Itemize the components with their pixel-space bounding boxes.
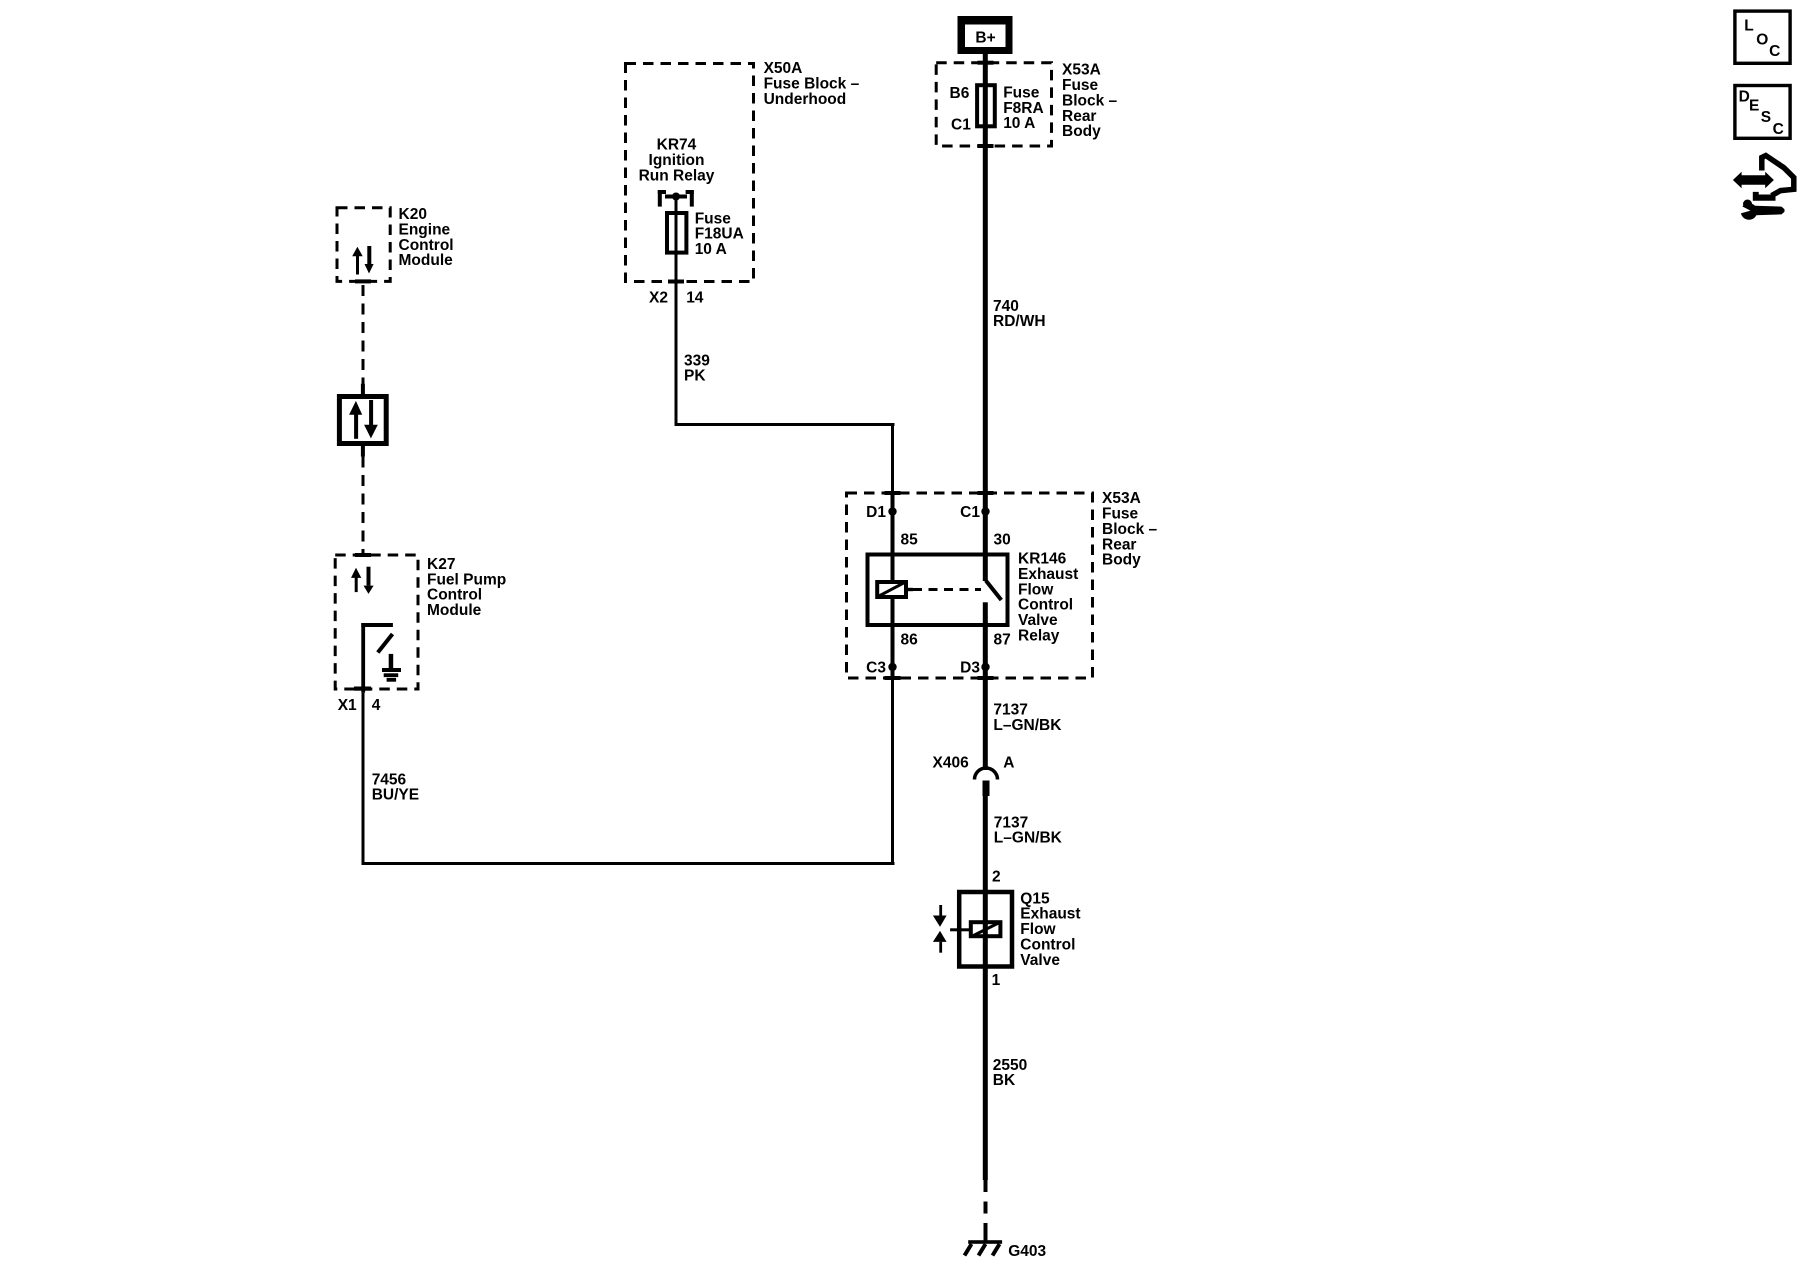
K27 internal driver switch bbox=[361, 623, 393, 653]
tick at wire crossing top edge of X53A upper box bbox=[978, 61, 994, 65]
svg-text:4: 4 bbox=[372, 697, 381, 714]
wire 7456 BU/YE rising segment to C3 bbox=[891, 679, 894, 865]
svg-text:C1: C1 bbox=[951, 117, 971, 134]
svg-text:Body: Body bbox=[1062, 123, 1101, 140]
diagnostic arrow and wrench icon bbox=[1733, 156, 1794, 220]
svg-text:14: 14 bbox=[686, 289, 704, 306]
KR74 Ignition Run Relay name label bbox=[639, 137, 715, 185]
wire 740 RD/WH bbox=[983, 128, 988, 581]
tick at C3 wire crossing bottom edge bbox=[885, 676, 901, 680]
fuse F8RA 10 A bbox=[977, 85, 995, 128]
tick at wire crossing bottom edge of X50A box bbox=[668, 280, 684, 284]
svg-text:C: C bbox=[1769, 43, 1780, 60]
svg-text:86: 86 bbox=[901, 631, 919, 648]
tick at D3 wire crossing bottom edge bbox=[978, 676, 994, 680]
svg-text:C: C bbox=[1773, 121, 1784, 138]
wire 339 PK value label bbox=[684, 352, 710, 384]
wire 7137 L-GN/BK upper value label bbox=[993, 702, 1062, 734]
svg-text:B+: B+ bbox=[975, 30, 995, 47]
K27 serial data arrows bbox=[351, 567, 374, 594]
node C3 junction dot bbox=[888, 663, 896, 671]
svg-text:Run Relay: Run Relay bbox=[639, 168, 715, 185]
svg-text:B6: B6 bbox=[950, 85, 970, 102]
svg-text:BK: BK bbox=[993, 1072, 1016, 1089]
K20 Engine Control Module dashed box bbox=[337, 208, 390, 282]
tick at wire crossing bottom edge of K20 box bbox=[355, 279, 371, 283]
wire from B+ into fuse block bbox=[983, 54, 988, 85]
X53A Fuse Block - Rear Body (upper) dashed box bbox=[936, 63, 1051, 146]
fuse F18UA value label bbox=[695, 210, 744, 258]
node D3 junction dot bbox=[981, 663, 989, 671]
wire D1 to relay coil pin 85 bbox=[891, 493, 895, 581]
svg-text:C3: C3 bbox=[866, 659, 886, 676]
svg-text:S: S bbox=[1761, 109, 1771, 126]
wire 740 RD/WH value label bbox=[993, 298, 1046, 330]
wire 7456 BU/YE value label bbox=[372, 771, 419, 803]
connector X1 pin 4 labels bbox=[338, 697, 381, 714]
svg-text:O: O bbox=[1756, 32, 1768, 49]
svg-text:BU/YE: BU/YE bbox=[372, 787, 419, 804]
Q15 Exhaust Flow Control Valve outline box bbox=[959, 892, 1012, 967]
relay KR146 name label bbox=[1018, 551, 1078, 645]
svg-text:D1: D1 bbox=[866, 504, 886, 521]
connector X406 symbol bbox=[975, 768, 998, 796]
X53A Fuse Block - Rear Body (relay) dashed box bbox=[847, 493, 1093, 678]
wire contact pin 87 to D3 bbox=[983, 602, 988, 770]
Q15 valve actuator arrows bbox=[933, 905, 947, 953]
svg-text:PK: PK bbox=[684, 368, 706, 385]
wire from switch to X1 pin 4 bbox=[361, 623, 365, 693]
relay KR146 switch blade bbox=[986, 581, 1002, 601]
gateway serial data arrows bbox=[349, 400, 378, 439]
relay KR146 outline box bbox=[868, 555, 1008, 626]
K27 internal ground bbox=[382, 654, 401, 682]
svg-text:87: 87 bbox=[994, 631, 1011, 648]
svg-text:E: E bbox=[1749, 98, 1759, 115]
dashed serial data wire gateway to K27 bbox=[362, 457, 365, 556]
Q15 Exhaust Flow Control Valve name label bbox=[1020, 890, 1080, 969]
serial data gateway box bbox=[339, 384, 386, 457]
svg-text:Valve: Valve bbox=[1020, 952, 1060, 969]
relay KR146 coil-contact dashed link bbox=[913, 588, 981, 591]
svg-text:Module: Module bbox=[399, 252, 454, 269]
X50A Fuse Block - Underhood dashed box bbox=[626, 64, 754, 282]
relay KR74 contact symbol bbox=[658, 190, 694, 207]
svg-text:D3: D3 bbox=[960, 659, 980, 676]
svg-text:1: 1 bbox=[992, 972, 1001, 989]
B+ battery positive voltage symbol bbox=[958, 16, 1013, 54]
wire 339 PK horizontal segment bbox=[675, 423, 895, 426]
X53A Fuse Block - Rear Body (relay) name label bbox=[1102, 490, 1158, 569]
tick at wire crossing bottom edge of K27 box (X1) bbox=[354, 687, 371, 691]
wire from KR74 contact through fuse F18UA bbox=[675, 197, 678, 426]
fuse F18UA 10 A bbox=[667, 213, 686, 253]
svg-text:X2: X2 bbox=[649, 289, 668, 306]
K20 Engine Control Module name label bbox=[399, 206, 454, 269]
X50A Fuse Block - Underhood name label bbox=[764, 60, 860, 108]
svg-text:10 A: 10 A bbox=[695, 241, 727, 258]
dashed serial data wire K20 to gateway bbox=[362, 285, 365, 394]
wire 2550 BK bbox=[983, 969, 988, 1180]
Q15 solenoid coil bbox=[950, 922, 1000, 936]
K20 serial data arrows bbox=[352, 246, 373, 275]
K27 Fuel Pump Control Module name label bbox=[427, 556, 506, 619]
fuse F8RA value label bbox=[1003, 84, 1043, 132]
tick at wire crossing top edge of K27 box bbox=[355, 553, 371, 557]
tick at C1 wire crossing top edge bbox=[978, 491, 994, 495]
svg-text:10 A: 10 A bbox=[1003, 115, 1035, 132]
svg-text:X406: X406 bbox=[932, 754, 969, 771]
ground G403 symbol bbox=[965, 1235, 1003, 1256]
svg-text:RD/WH: RD/WH bbox=[993, 313, 1046, 330]
svg-text:L–GN/BK: L–GN/BK bbox=[993, 717, 1062, 734]
wire 7137 L-GN/BK lower segment bbox=[983, 796, 988, 890]
K27 Fuel Pump Control Module dashed box bbox=[335, 555, 418, 689]
connector X406 labels bbox=[932, 754, 1014, 771]
wire 2550 BK value label bbox=[993, 1057, 1027, 1089]
wire through Q15 bbox=[983, 890, 988, 969]
svg-text:30: 30 bbox=[994, 531, 1011, 548]
connector X2 pin 14 labels bbox=[649, 289, 704, 306]
wire 7456 BU/YE horizontal segment bbox=[362, 862, 895, 865]
LOC hyperlink icon box bbox=[1735, 11, 1790, 63]
svg-text:L: L bbox=[1744, 18, 1753, 35]
svg-text:85: 85 bbox=[901, 531, 919, 548]
wire 339 PK vertical segment to relay block bbox=[891, 423, 894, 493]
svg-text:Module: Module bbox=[427, 602, 482, 619]
svg-text:C1: C1 bbox=[960, 504, 980, 521]
relay KR146 coil bbox=[877, 582, 913, 597]
dashed wire to ground G403 bbox=[984, 1180, 988, 1236]
wire 7137 L-GN/BK lower value label bbox=[994, 814, 1063, 846]
svg-text:A: A bbox=[1003, 754, 1014, 771]
svg-text:X1: X1 bbox=[338, 697, 357, 714]
svg-text:Relay: Relay bbox=[1018, 628, 1060, 645]
wire coil pin 86 to C3 bbox=[891, 597, 895, 679]
tick at wire crossing bottom edge of X53A upper box bbox=[978, 144, 994, 148]
DESC hyperlink icon box bbox=[1735, 86, 1790, 139]
tick at D1 wire crossing top edge bbox=[885, 491, 901, 495]
svg-text:G403: G403 bbox=[1008, 1243, 1046, 1260]
svg-text:2: 2 bbox=[992, 869, 1001, 886]
svg-text:Underhood: Underhood bbox=[764, 91, 847, 108]
X53A Fuse Block - Rear Body (upper) name label bbox=[1062, 62, 1118, 141]
wire 7456 BU/YE vertical segment bbox=[362, 693, 365, 865]
svg-text:L–GN/BK: L–GN/BK bbox=[994, 830, 1063, 847]
svg-text:Body: Body bbox=[1102, 552, 1141, 569]
node D1 junction dot bbox=[888, 507, 896, 515]
node C1 junction dot bbox=[981, 507, 989, 515]
